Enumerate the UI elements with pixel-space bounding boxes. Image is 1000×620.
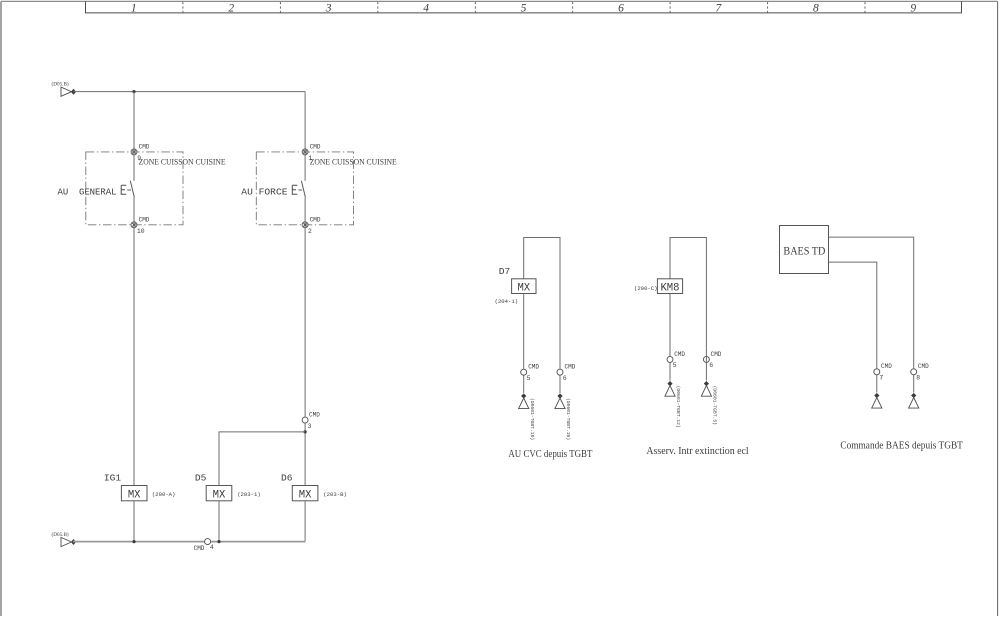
- svg-text:ZONE CUISSON CUISINE: ZONE CUISSON CUISINE: [139, 157, 226, 166]
- svg-text:(D0601-TGBT.12): (D0601-TGBT.12): [675, 386, 681, 428]
- terminal pin 5 (KM8): [667, 356, 673, 362]
- wire top horizontal bus: [73, 91, 305, 93]
- svg-text:CMD: CMD: [528, 364, 539, 371]
- block BAES TD: [780, 226, 829, 274]
- svg-text:CMD: CMD: [711, 351, 722, 358]
- svg-text:(204-1): (204-1): [495, 298, 518, 305]
- sheet ref arrow D7 pin 5: [519, 393, 535, 440]
- svg-text:MX: MX: [517, 282, 530, 294]
- svg-text:2: 2: [308, 228, 312, 235]
- junction at top of AU GENERAL branch: [132, 90, 135, 93]
- svg-text:D5: D5: [195, 473, 207, 484]
- terminal pin 1: [302, 149, 308, 155]
- svg-text:CMD: CMD: [139, 144, 150, 151]
- svg-text:4: 4: [210, 544, 214, 551]
- svg-text:5: 5: [527, 375, 531, 382]
- svg-text:MX: MX: [299, 489, 312, 501]
- svg-text:CMD: CMD: [565, 364, 576, 371]
- svg-text:CMD: CMD: [194, 545, 205, 552]
- svg-text:(203-1): (203-1): [237, 491, 261, 498]
- terminal pin 2: [302, 222, 308, 228]
- wire below switch AU FORCE: [304, 197, 306, 485]
- dashed boundary box AU FORCE: [256, 152, 353, 225]
- svg-text:CMD: CMD: [674, 351, 685, 358]
- wire BAES pin 7 leg: [829, 262, 877, 392]
- wire below switch AU GENERAL: [133, 197, 135, 485]
- svg-text:CMD: CMD: [918, 363, 929, 370]
- switch AU GENERAL (emergency stop contact): [121, 181, 134, 198]
- svg-text:CMD: CMD: [310, 144, 321, 151]
- svg-text:(203-B): (203-B): [323, 491, 347, 498]
- terminal pin 10: [131, 222, 137, 228]
- svg-text:D7: D7: [499, 266, 511, 277]
- wire branch to D5: [219, 432, 305, 486]
- svg-text:5: 5: [521, 2, 527, 14]
- wire D7 coil down: [523, 294, 525, 394]
- svg-text:10: 10: [137, 228, 145, 235]
- svg-text:AU GENERAL: AU GENERAL: [58, 186, 117, 197]
- wire KM8 top loop: [670, 238, 706, 357]
- svg-text:6: 6: [563, 375, 567, 382]
- svg-text:3: 3: [308, 423, 312, 430]
- node D05.B return arrow (bottom left): [52, 531, 77, 546]
- sheet ref arrow KM8 pin 6: [701, 381, 717, 425]
- svg-text:8: 8: [916, 375, 920, 382]
- wire D7 top loop: [524, 238, 560, 370]
- wire D7 right leg down: [559, 369, 561, 393]
- wire D5 coil to bottom rail: [218, 501, 220, 542]
- svg-text:(D0601-TGBT.10): (D0601-TGBT.10): [529, 398, 535, 440]
- svg-text:MX: MX: [213, 489, 226, 501]
- svg-text:D6: D6: [281, 473, 293, 484]
- svg-text:1: 1: [131, 2, 137, 14]
- svg-text:IG1: IG1: [104, 473, 122, 484]
- terminal pin 8: [911, 369, 917, 375]
- svg-text:Asserv. Intr extinction ecl: Asserv. Intr extinction ecl: [646, 446, 748, 457]
- junction IG1 on rail: [132, 540, 135, 543]
- wire bottom rail: [73, 541, 305, 543]
- relay coil D5: [195, 473, 261, 502]
- wire IG1 coil to bottom rail: [133, 501, 135, 542]
- svg-text:(D05.B): (D05.B): [52, 531, 69, 538]
- svg-text:(D0601-TGBT.10): (D0601-TGBT.10): [565, 398, 571, 440]
- junction D5 on rail: [217, 540, 220, 543]
- svg-text:(200-A): (200-A): [152, 491, 176, 498]
- svg-text:6: 6: [618, 2, 624, 14]
- terminal pin 5 (D7): [521, 369, 527, 375]
- svg-text:(200-C): (200-C): [634, 285, 658, 292]
- svg-text:Commande BAES depuis TGBT: Commande BAES depuis TGBT: [840, 441, 963, 452]
- svg-text:(D0601-TGBT.5): (D0601-TGBT.5): [712, 386, 718, 426]
- terminal pin 9: [131, 149, 137, 155]
- terminal pin 7: [874, 369, 880, 375]
- terminal pin 4 on rail: [205, 539, 211, 545]
- junction node to D5 branch: [304, 430, 307, 433]
- svg-text:CMD: CMD: [881, 363, 892, 370]
- relay coil D6: [281, 473, 347, 502]
- wire AU FORCE branch down: [304, 92, 306, 181]
- svg-text:KM8: KM8: [660, 282, 679, 294]
- dashed boundary box AU GENERAL: [86, 152, 183, 225]
- wire AU GENERAL branch down: [133, 92, 135, 181]
- terminal pin 6 (KM8): [703, 356, 709, 362]
- svg-text:CMD: CMD: [139, 217, 150, 224]
- relay coil KM8: [634, 279, 683, 295]
- svg-text:MX: MX: [128, 489, 141, 501]
- svg-text:9: 9: [910, 2, 916, 14]
- svg-text:8: 8: [813, 2, 819, 14]
- wire KM8 coil down: [669, 294, 671, 381]
- svg-text:4: 4: [423, 2, 429, 14]
- svg-text:AU CVC depuis TGBT: AU CVC depuis TGBT: [508, 449, 592, 460]
- svg-text:AU FORCE: AU FORCE: [241, 186, 288, 197]
- wire KM8 right leg lower stub: [705, 357, 707, 381]
- svg-text:BAES TD: BAES TD: [783, 245, 825, 257]
- svg-text:6: 6: [709, 362, 713, 369]
- svg-text:CMD: CMD: [310, 217, 321, 224]
- node D05.B source arrow (top left): [52, 81, 77, 97]
- svg-text:(D05.B): (D05.B): [52, 81, 69, 88]
- sheet ref arrow D7 pin 6: [555, 393, 571, 440]
- svg-text:CMD: CMD: [309, 411, 320, 418]
- relay coil D7: [495, 266, 536, 305]
- wire D6 coil to bottom rail: [304, 501, 306, 542]
- svg-text:5: 5: [673, 362, 677, 369]
- column ruler bar: [85, 1, 962, 13]
- svg-text:ZONE CUISSON CUISINE: ZONE CUISSON CUISINE: [310, 157, 397, 166]
- sheet ref arrow pin 8: [909, 393, 919, 408]
- sheet ref arrow KM8 pin 5: [665, 381, 681, 428]
- switch AU FORCE (emergency stop contact): [292, 181, 305, 198]
- terminal pin 6 (D7): [557, 369, 563, 375]
- sheet ref arrow pin 7: [872, 393, 882, 408]
- svg-text:2: 2: [228, 2, 234, 14]
- svg-text:7: 7: [879, 375, 883, 382]
- relay coil IG1: [104, 473, 175, 502]
- wire BAES pin 8 leg: [829, 237, 914, 392]
- terminal pin 3: [302, 417, 308, 423]
- svg-text:3: 3: [325, 2, 332, 14]
